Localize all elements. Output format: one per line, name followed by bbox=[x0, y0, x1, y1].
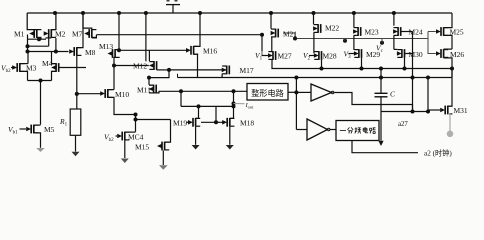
resistor R1 bbox=[70, 109, 81, 135]
capacitor C bbox=[375, 69, 388, 141]
wire bbox=[75, 135, 77, 151]
transistor M26 bbox=[436, 49, 448, 58]
terminal under M31 bbox=[447, 131, 454, 138]
wire bbox=[313, 13, 315, 24]
wire bbox=[40, 38, 42, 39]
wire bbox=[393, 13, 395, 26]
label V2 bbox=[303, 51, 311, 62]
node K bbox=[232, 102, 236, 106]
node bus B left bbox=[293, 37, 297, 41]
label M19 bbox=[173, 118, 187, 127]
wire bbox=[28, 45, 49, 47]
wire bbox=[270, 13, 272, 29]
svg-text:M12: M12 bbox=[133, 62, 147, 71]
svg-text:MC4: MC4 bbox=[128, 133, 144, 142]
wire bbox=[136, 119, 171, 121]
transistor M5 bbox=[26, 125, 38, 134]
wire bbox=[113, 66, 115, 90]
label Vc bbox=[376, 44, 384, 55]
ground under MC4 bbox=[121, 159, 129, 164]
wire bbox=[187, 121, 189, 123]
wire bbox=[448, 114, 450, 131]
transistor M24 bbox=[393, 27, 401, 36]
node G bbox=[214, 120, 218, 124]
wire bbox=[20, 71, 28, 80]
transistor M21 bbox=[271, 29, 279, 38]
node J bbox=[232, 89, 236, 93]
transistor M4 bbox=[51, 63, 59, 72]
transistor M13 bbox=[108, 49, 120, 58]
svg-text:M1: M1 bbox=[14, 30, 25, 39]
transistor M8 bbox=[69, 47, 81, 56]
wire bbox=[444, 13, 452, 28]
svg-text:M11: M11 bbox=[137, 86, 151, 95]
wire bbox=[261, 51, 263, 56]
node out2 bbox=[426, 110, 430, 114]
node riser407 on bus D bbox=[411, 76, 415, 80]
label MC4 bbox=[128, 133, 144, 142]
svg-text:M31: M31 bbox=[454, 106, 468, 115]
transistor M22 bbox=[313, 24, 321, 33]
wire bbox=[59, 67, 86, 69]
wire stub Iout bbox=[234, 103, 245, 105]
wire bbox=[261, 35, 263, 51]
wire bbox=[196, 106, 199, 118]
buffer U2 bbox=[307, 119, 330, 140]
wire bbox=[118, 13, 120, 49]
label M29 bbox=[366, 50, 380, 59]
transistor M3 bbox=[12, 63, 24, 72]
wire bbox=[148, 50, 150, 61]
wire bbox=[162, 150, 164, 165]
wire bbox=[154, 91, 247, 93]
label M8 bbox=[85, 48, 96, 57]
wire bbox=[283, 33, 295, 39]
transistor M23 bbox=[353, 27, 361, 36]
svg-text:M15: M15 bbox=[135, 143, 149, 152]
label M11 bbox=[137, 86, 151, 95]
node F3 bbox=[232, 104, 236, 108]
ground under M15 bbox=[159, 165, 168, 170]
arrow into divider area bbox=[378, 141, 383, 146]
junction on VDD rail bbox=[81, 11, 85, 15]
wire bbox=[401, 31, 413, 33]
wire bbox=[27, 52, 29, 64]
node A2 bbox=[26, 44, 30, 48]
label M21 bbox=[283, 29, 297, 38]
wire bbox=[194, 54, 198, 77]
wire bbox=[114, 65, 149, 67]
label M31 bbox=[454, 106, 468, 115]
wire bus C bbox=[271, 68, 452, 70]
svg-text:a2 (时钟): a2 (时钟) bbox=[424, 148, 452, 157]
wire bbox=[145, 13, 147, 61]
junction on VDD rail bbox=[352, 11, 356, 15]
svg-text:a27: a27 bbox=[398, 121, 408, 128]
wire bbox=[295, 78, 297, 130]
transistor M27 bbox=[268, 51, 276, 60]
svg-text:M30: M30 bbox=[409, 50, 423, 59]
label V1 bbox=[255, 51, 263, 62]
wire bbox=[181, 105, 234, 107]
junction on VDD rail bbox=[198, 11, 202, 15]
ground under M18 bbox=[226, 145, 234, 150]
junction on bus C bbox=[379, 67, 383, 71]
transistor M10 bbox=[100, 89, 112, 98]
wire bbox=[119, 49, 187, 51]
wire bbox=[51, 13, 56, 30]
transistor M1 bbox=[29, 29, 41, 38]
node M bbox=[294, 76, 298, 80]
svg-text:M16: M16 bbox=[203, 47, 217, 56]
wire bbox=[444, 35, 452, 49]
transistor M31 bbox=[440, 106, 452, 115]
wire bbox=[148, 78, 150, 85]
block shaping circuit bbox=[247, 84, 288, 101]
node F2 bbox=[197, 104, 201, 108]
label M30 bbox=[409, 50, 423, 59]
wire bbox=[393, 36, 395, 50]
svg-text:M28: M28 bbox=[323, 52, 337, 61]
junction on VDD rail bbox=[144, 11, 148, 15]
transistor M12 bbox=[149, 61, 157, 70]
wire bbox=[330, 129, 336, 131]
node M2-M8 gate bbox=[54, 50, 58, 54]
wire bbox=[448, 69, 452, 107]
power symbol VDD bbox=[166, 1, 180, 13]
wire bbox=[394, 48, 397, 50]
node H bbox=[134, 113, 138, 117]
wire bbox=[296, 129, 307, 131]
wire bbox=[180, 91, 182, 106]
node M1-M2 source bbox=[37, 37, 41, 41]
power rail VDD bbox=[27, 12, 452, 14]
wire output bbox=[381, 111, 428, 113]
wire bbox=[349, 53, 355, 55]
wire bbox=[334, 93, 413, 112]
svg-text:M8: M8 bbox=[85, 48, 96, 57]
label M15 bbox=[135, 143, 149, 152]
wire bbox=[157, 69, 169, 71]
block divider circuit bbox=[336, 121, 379, 141]
wire bbox=[108, 89, 114, 91]
label M4 bbox=[42, 59, 53, 68]
wire bbox=[230, 91, 234, 118]
transistor M15 bbox=[157, 142, 169, 151]
wire bbox=[165, 120, 171, 143]
wire bbox=[135, 115, 137, 132]
wire gate riser M24-M30 bbox=[412, 32, 414, 112]
transistor M25 bbox=[436, 27, 448, 36]
junction on VDD rail bbox=[269, 11, 273, 15]
ground under M5 bbox=[36, 148, 45, 152]
wire bbox=[352, 141, 418, 153]
wire bbox=[34, 133, 41, 148]
wire bbox=[194, 13, 200, 46]
node M13 drain bbox=[117, 48, 121, 52]
label R1 bbox=[59, 117, 68, 128]
svg-text:M13: M13 bbox=[99, 42, 113, 51]
label M10 bbox=[115, 90, 129, 99]
wire bbox=[40, 81, 42, 125]
wire bbox=[405, 53, 413, 55]
wire bus A bbox=[96, 34, 262, 36]
label M25 bbox=[450, 28, 464, 37]
wire bbox=[125, 131, 136, 133]
label M27 bbox=[278, 52, 292, 61]
junction on bus C bbox=[360, 67, 364, 71]
wire bbox=[361, 58, 363, 69]
label a27 bbox=[398, 121, 408, 128]
wire bbox=[428, 109, 440, 111]
label M3 bbox=[26, 64, 37, 73]
node L bbox=[294, 90, 298, 94]
node R1 top bbox=[75, 92, 79, 96]
node C bbox=[112, 64, 116, 68]
wire bbox=[353, 13, 355, 27]
transistor M30 bbox=[397, 49, 405, 58]
transistor M17 bbox=[222, 66, 230, 75]
wire bbox=[108, 97, 136, 114]
node B bbox=[39, 79, 43, 83]
wire bbox=[76, 94, 78, 109]
wire bbox=[262, 55, 269, 57]
svg-text:M19: M19 bbox=[173, 118, 187, 127]
node F bbox=[179, 89, 183, 93]
wire bbox=[177, 74, 179, 78]
label Vb2 node bbox=[1, 64, 11, 75]
wire bbox=[27, 35, 29, 52]
wire bbox=[116, 135, 118, 137]
wire bus D bbox=[178, 77, 453, 79]
transistor M18 bbox=[222, 118, 234, 127]
svg-text:M22: M22 bbox=[325, 24, 339, 33]
svg-text:M17: M17 bbox=[240, 66, 254, 75]
node Vc bbox=[380, 41, 384, 45]
node out1 bbox=[411, 110, 415, 114]
node D bbox=[167, 68, 171, 72]
wire bbox=[404, 58, 406, 69]
transistor M16 bbox=[186, 46, 198, 55]
wire bbox=[78, 93, 103, 95]
svg-text:M5: M5 bbox=[44, 125, 55, 134]
label M17 bbox=[240, 66, 254, 75]
wire bbox=[215, 106, 217, 122]
wire bbox=[344, 39, 346, 41]
wire bbox=[51, 52, 53, 64]
svg-text:整形电路: 整形电路 bbox=[251, 88, 284, 98]
wire bbox=[28, 51, 69, 53]
label M12 bbox=[133, 62, 147, 71]
transistor MC4 bbox=[117, 132, 129, 141]
node A mirror bbox=[26, 50, 30, 54]
wire bbox=[195, 127, 197, 145]
label M18 bbox=[240, 118, 254, 127]
wire bbox=[52, 63, 57, 65]
wire bbox=[444, 58, 452, 69]
node bus B V3 bbox=[343, 39, 347, 43]
transistor M28 bbox=[314, 51, 322, 60]
transistor M11 bbox=[149, 85, 157, 94]
wire bbox=[428, 32, 436, 54]
wire bus B bbox=[295, 38, 428, 40]
wire bbox=[381, 39, 383, 43]
wire bbox=[28, 38, 47, 40]
wire bbox=[169, 69, 226, 71]
wire bbox=[271, 37, 273, 52]
wire bbox=[52, 71, 57, 80]
label M2 bbox=[55, 29, 66, 38]
label V3 bbox=[344, 50, 352, 61]
svg-text:M23: M23 bbox=[365, 28, 379, 37]
junction on VDD rail bbox=[117, 11, 121, 15]
svg-text:M7: M7 bbox=[72, 30, 83, 39]
label Iout bbox=[245, 102, 255, 110]
label M1 bbox=[14, 30, 25, 39]
wire bbox=[83, 13, 92, 29]
wire bbox=[20, 128, 27, 130]
junction on bus C bbox=[320, 67, 324, 71]
wire bbox=[309, 55, 314, 57]
wire bbox=[20, 63, 28, 65]
svg-text:M2: M2 bbox=[55, 29, 66, 38]
node I bbox=[134, 118, 138, 122]
svg-text:M4: M4 bbox=[42, 59, 53, 68]
node C-top on bus D bbox=[379, 76, 383, 80]
wire bbox=[428, 31, 436, 33]
wire bbox=[444, 48, 452, 50]
transistor M29 bbox=[354, 49, 362, 58]
wire bbox=[296, 91, 311, 93]
label Vb1 bbox=[8, 125, 18, 136]
ground under R1 bbox=[72, 152, 80, 157]
wire bbox=[353, 36, 355, 50]
junction on bus C bbox=[450, 67, 454, 71]
wire bbox=[27, 13, 37, 30]
wire bbox=[451, 69, 453, 78]
svg-text:M18: M18 bbox=[240, 118, 254, 127]
transistor M19 bbox=[188, 118, 200, 127]
junction on bus C bbox=[403, 67, 407, 71]
wire bbox=[149, 84, 154, 86]
wire bbox=[46, 37, 52, 39]
node E bbox=[147, 76, 151, 80]
wire bbox=[76, 56, 78, 94]
wire bbox=[313, 33, 315, 54]
label M28 bbox=[323, 52, 337, 61]
wire bbox=[77, 13, 83, 48]
transistor M7 bbox=[84, 29, 96, 38]
wire bbox=[92, 35, 97, 38]
junction on VDD rail bbox=[53, 11, 57, 15]
transistor M2 bbox=[44, 29, 56, 38]
label a2 clock bbox=[424, 148, 452, 157]
junction on VDD rail bbox=[392, 11, 396, 15]
label M7 bbox=[72, 30, 83, 39]
label M23 bbox=[365, 28, 379, 37]
wire bbox=[201, 121, 223, 123]
label M22 bbox=[325, 24, 339, 33]
wire bbox=[28, 80, 52, 82]
wire bbox=[55, 38, 57, 52]
label M13 bbox=[99, 42, 113, 51]
wire bbox=[11, 67, 13, 69]
wire bbox=[124, 140, 126, 158]
wire bbox=[288, 91, 296, 93]
label M16 bbox=[203, 47, 217, 56]
wire bbox=[271, 59, 273, 68]
label M24 bbox=[409, 28, 423, 37]
label Vb2 bbox=[104, 133, 114, 144]
wire riser bbox=[427, 78, 429, 112]
svg-text:M10: M10 bbox=[115, 90, 129, 99]
node bus A end bbox=[260, 33, 264, 37]
wire bbox=[321, 60, 323, 69]
label M26 bbox=[450, 50, 464, 59]
svg-text:M27: M27 bbox=[278, 52, 292, 61]
junction on VDD rail bbox=[312, 11, 316, 15]
node riser on bus D bbox=[426, 76, 430, 80]
wire bbox=[114, 57, 115, 65]
wire bbox=[149, 70, 169, 78]
wire bbox=[48, 38, 50, 46]
wire bbox=[221, 74, 223, 78]
label C bbox=[390, 90, 396, 99]
wire bbox=[229, 127, 231, 145]
wire bbox=[34, 124, 41, 126]
label M5 bbox=[44, 125, 55, 134]
wire bbox=[115, 49, 119, 51]
buffer U1 bbox=[311, 84, 334, 101]
ground under M19 bbox=[192, 145, 200, 150]
